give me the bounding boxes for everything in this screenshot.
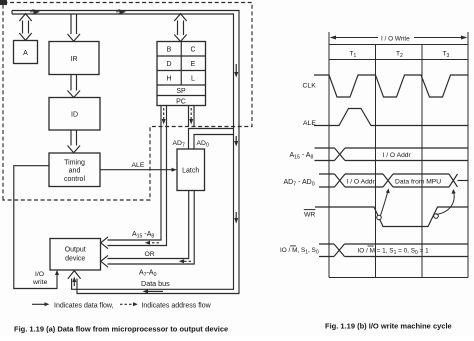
register IR box bbox=[49, 42, 99, 75]
label WR bbox=[304, 210, 316, 219]
svg-text:E: E bbox=[191, 61, 196, 68]
svg-text:WR: WR bbox=[304, 212, 315, 219]
svg-text:SP: SP bbox=[176, 88, 186, 95]
output device box bbox=[50, 239, 101, 271]
bus down arrow lower bbox=[234, 212, 238, 224]
label A7-A0 bbox=[139, 270, 157, 279]
svg-text:PC: PC bbox=[176, 99, 186, 106]
internal data bus wire bbox=[12, 11, 239, 294]
bus down arrow upper bbox=[234, 64, 238, 78]
IR bus arrow bbox=[68, 14, 81, 41]
ALE wire bbox=[100, 168, 177, 172]
svg-text:Data from MPU: Data from MPU bbox=[395, 178, 441, 185]
svg-text:A15 - A8: A15 - A8 bbox=[290, 152, 314, 161]
svg-text:IO / M, S1, S0: IO / M, S1, S0 bbox=[280, 247, 319, 256]
svg-text:I / O Write: I / O Write bbox=[381, 35, 410, 42]
address flow arrow in A7-A0 wire bbox=[179, 259, 191, 263]
svg-text:Timing: Timing bbox=[64, 160, 85, 167]
caption figure b bbox=[325, 322, 452, 331]
timing pointer arrow right bbox=[437, 189, 456, 215]
svg-text:IR: IR bbox=[71, 56, 78, 63]
IO/M bus waveform bbox=[319, 244, 468, 257]
CLK waveform bbox=[314, 75, 468, 97]
label AD7-AD0 row bbox=[284, 179, 315, 188]
svg-text:D: D bbox=[166, 61, 171, 68]
svg-text:ALE: ALE bbox=[132, 162, 145, 169]
label I/O write bbox=[32, 271, 48, 286]
label IO/M S1 S0 bbox=[280, 246, 319, 256]
A15-A8 bus waveform bbox=[315, 148, 469, 161]
svg-text:AD0: AD0 bbox=[197, 140, 209, 149]
timing pointer arrow left bbox=[381, 189, 390, 216]
bus flow arrow top left bbox=[30, 10, 39, 15]
svg-text:I / O Addr: I / O Addr bbox=[347, 178, 376, 185]
svg-text:T3: T3 bbox=[443, 51, 450, 60]
register A box bbox=[14, 41, 38, 64]
label AD0 bbox=[197, 140, 209, 149]
bus down arrow mid bbox=[234, 136, 238, 147]
svg-text:IO / M = 1, S1 = 0, S0 = 1: IO / M = 1, S1 = 0, S0 = 1 bbox=[358, 247, 430, 256]
bus flow arrow top right bbox=[116, 10, 125, 15]
svg-text:C: C bbox=[190, 47, 195, 54]
label OR bbox=[145, 251, 155, 258]
svg-text:control: control bbox=[64, 176, 85, 183]
svg-text:device: device bbox=[65, 256, 85, 263]
I/O Write span arrow bbox=[330, 35, 468, 42]
ID to timing arrow bbox=[68, 130, 81, 153]
AD7-AD0 bus waveform bbox=[319, 174, 468, 187]
label ALE bbox=[132, 162, 145, 169]
svg-text:L: L bbox=[191, 76, 195, 83]
svg-text:B: B bbox=[167, 47, 172, 54]
labels T1 T2 T3 bbox=[350, 51, 450, 60]
register block B C D E H L SP PC bbox=[157, 42, 206, 106]
legend data flow bbox=[32, 302, 114, 309]
svg-text:OR: OR bbox=[145, 251, 155, 258]
svg-text:H: H bbox=[166, 76, 171, 83]
scan artifact corner mark bbox=[0, 0, 7, 5]
svg-text:Indicates address flow: Indicates address flow bbox=[141, 302, 211, 309]
label A15-A8 row bbox=[290, 152, 314, 161]
svg-text:AD7: AD7 bbox=[173, 140, 185, 149]
svg-text:A7-A0: A7-A0 bbox=[139, 270, 157, 279]
IR to ID arrow bbox=[68, 75, 81, 98]
svg-text:Data bus: Data bus bbox=[141, 279, 170, 288]
legend address flow bbox=[120, 302, 212, 309]
A15-A8 address bus wire bbox=[101, 106, 167, 249]
svg-text:T2: T2 bbox=[396, 51, 403, 60]
svg-text:Latch: Latch bbox=[182, 168, 199, 175]
timing and control box bbox=[49, 153, 100, 187]
label A15-A8 bbox=[132, 231, 154, 240]
svg-text:and: and bbox=[69, 168, 81, 175]
svg-text:Fig. 1.19 (a) Data flow from m: Fig. 1.19 (a) Data flow from microproces… bbox=[14, 325, 228, 334]
data bus flow arrow bbox=[143, 289, 164, 293]
svg-text:I / O Addr: I / O Addr bbox=[383, 152, 412, 159]
address flow arrow in A15-A8 wire bbox=[145, 241, 159, 245]
MPU dashed boundary bbox=[3, 3, 252, 201]
I/O write control wire bbox=[14, 166, 59, 289]
decoder ID box bbox=[49, 98, 100, 131]
PC address flow dashed arrow left bbox=[162, 108, 166, 125]
svg-text:CLK: CLK bbox=[303, 83, 317, 90]
svg-text:Fig. 1.19 (b) I/O write machin: Fig. 1.19 (b) I/O write machine cycle bbox=[325, 322, 452, 331]
svg-text:T1: T1 bbox=[350, 51, 357, 60]
timing grid bbox=[329, 32, 468, 278]
svg-text:A15 -A8: A15 -A8 bbox=[132, 231, 154, 240]
register block bus arrow bbox=[174, 14, 186, 42]
latch output A7-A0 wire bbox=[101, 191, 194, 268]
accumulator bus arrow bbox=[19, 14, 31, 41]
svg-text:I/O: I/O bbox=[35, 271, 44, 278]
WR waveform bbox=[315, 207, 468, 227]
ALE waveform bbox=[314, 109, 468, 126]
PC address flow dashed arrow right bbox=[189, 106, 195, 127]
label CLK bbox=[303, 83, 317, 90]
label ALE bbox=[303, 120, 316, 127]
latch box bbox=[177, 149, 205, 191]
svg-text:A: A bbox=[23, 50, 28, 57]
svg-text:Output: Output bbox=[65, 247, 86, 254]
label Data bus bbox=[141, 279, 170, 288]
svg-text:ID: ID bbox=[71, 112, 78, 119]
label AD7 bbox=[173, 140, 185, 149]
svg-text:Indicates data flow,: Indicates data flow, bbox=[54, 302, 114, 309]
svg-text:AD7 - AD0: AD7 - AD0 bbox=[284, 179, 315, 188]
caption figure a bbox=[14, 325, 228, 334]
data flow arrow in bus vertical bbox=[72, 277, 76, 287]
AD bus branch to latch bbox=[189, 129, 234, 150]
svg-text:write: write bbox=[32, 279, 48, 286]
